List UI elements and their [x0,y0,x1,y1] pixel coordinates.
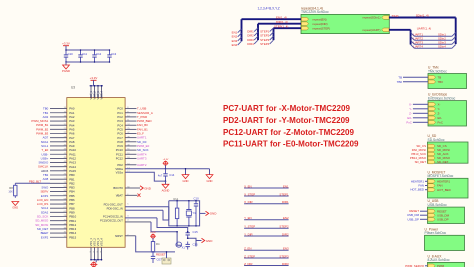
svg-text:C15: C15 [193,230,199,234]
ground [90,260,97,267]
svg-text:PC14/OSC32_IN: PC14/OSC32_IN [103,214,123,218]
bus entry STEP2 [270,32,274,36]
svg-text:HOT_BED: HOT_BED [437,188,451,192]
svg-text:UART4: UART4 [414,45,424,49]
net label EN2 [283,216,289,220]
note channel map [258,6,280,10]
pin PC9 [117,144,149,148]
resistor R4 [151,242,160,253]
pin PA1 [43,111,75,115]
pin PA6 [36,132,75,136]
net label STEP1 [279,192,289,196]
net label DIR(1..4) [276,20,288,24]
net label DIR1 [282,200,289,204]
svg-text:+3.3V: +3.3V [150,232,156,234]
svg-text:+3.3V: +3.3V [163,159,169,161]
wire [244,203,289,205]
net label PA6_MOSI [412,148,426,152]
pin VDD2 [93,85,97,100]
net label DIR3 [247,38,254,42]
bus wire UART [389,30,411,45]
svg-text:PC12-UART for -Z-Motor-TMC2209: PC12-UART for -Z-Motor-TMC2209 [223,128,355,137]
wire [414,43,452,45]
net label DIR4 [247,42,254,46]
bus entry EN1 [238,29,242,33]
pin PB13 [37,227,77,231]
net label DIR1 [247,30,254,34]
svg-text:AD8: AD8 [43,177,49,181]
switch S1 [162,251,171,264]
pin VDD3 [96,85,100,100]
svg-text:TB0: TB0 [438,80,444,84]
pin VBAT [116,193,138,197]
sheet entry RESET [428,209,447,213]
net label EN(1..4) [276,15,287,19]
svg-text:STEP(1..4): STEP(1..4) [274,24,288,28]
sheet symbol U_8-AUX [428,254,465,267]
svg-text:repeat(EN): repeat(EN) [313,17,327,21]
net label STEP3 [260,38,270,42]
sheet entry SD_CS [428,144,447,148]
svg-text:EXP2: EXP2 [41,235,49,239]
svg-text:Z_STEP: Z_STEP [244,254,255,258]
svg-text:C13: C13 [111,52,117,56]
pin PA13 [39,161,77,165]
pin PC4 [117,123,148,127]
svg-text:PD2-UART for -Y-Motor-TMC2209: PD2-UART for -Y-Motor-TMC2209 [223,116,350,125]
pin VDDA [115,167,165,171]
net label X- [409,102,428,106]
ground [206,169,213,183]
svg-text:GND: GND [183,179,189,183]
sheet entry SD_ACK [428,152,449,156]
svg-text:VSS_4: VSS_4 [100,238,104,247]
net label EN2 [232,35,238,39]
svg-text:C10: C10 [68,52,74,56]
power +3.3V [163,159,169,169]
net label SDin3 [438,41,446,45]
capacitor C11 [78,49,87,63]
pin PC15-OSC32_OUT [100,219,151,223]
net label UART1 [414,33,424,37]
pin VSS3 [96,238,100,261]
svg-text:PC7-UART for -X-Motor-TMC2209: PC7-UART for -X-Motor-TMC2209 [223,104,350,113]
wire [66,50,111,62]
svg-text:Y_EN: Y_EN [244,216,252,220]
wire [187,237,196,246]
svg-text:UART2: UART2 [137,163,147,167]
wire [176,231,181,245]
net label EN3 [283,247,289,251]
pin PB5 [41,194,75,198]
net label UART2 [414,37,424,41]
net label TB [398,75,428,79]
bus wire SDin [389,18,456,45]
svg-text:E0-: E0- [407,116,412,120]
pin PC12 [116,156,147,160]
pin PB12 [35,223,76,227]
svg-text:TMC2209.SchDoc: TMC2209.SchDoc [301,10,329,14]
svg-text:SD.SchDoc: SD.SchDoc [428,138,445,142]
pin PC2 [117,115,147,119]
bus entry [452,41,456,45]
pin PB15 [41,235,77,239]
net label DIR2 [247,34,254,38]
resistor R5 [174,197,179,226]
pin PA3 [31,119,74,123]
sheet entry Z- [428,111,440,115]
note UART assignments [223,104,359,149]
bus entry DIR4 [254,40,258,44]
wire [244,219,289,221]
sheet symbol U_Power [425,227,465,250]
pin PC1 [117,111,152,115]
wire [244,249,289,251]
svg-text:TB: TB [398,75,402,79]
svg-text:C11: C11 [82,52,87,56]
svg-text:C16: C16 [193,243,199,247]
pin PA4 [36,123,75,127]
bus entry [411,37,415,41]
sheet entry USB_DM [428,213,450,217]
wire [244,265,289,267]
svg-text:GND: GND [210,212,218,216]
svg-text:DIR2: DIR2 [282,232,289,236]
svg-text:Rx1: Rx1 [174,197,179,201]
pin PB7 [37,202,75,206]
net label Y_DIR [244,232,253,236]
svg-text:PC15/OSC32_OUT: PC15/OSC32_OUT [100,219,123,223]
svg-text:repeat(STEP): repeat(STEP) [313,26,331,30]
net label USB_DM [407,213,428,217]
sheet entry repeat(UART) [363,28,389,32]
pin PD2 [117,163,146,167]
svg-text:+3.3V: +3.3V [62,42,70,46]
bus entry DIR3 [254,36,258,40]
svg-text:Z-: Z- [438,111,441,115]
svg-text:EN3: EN3 [283,247,289,251]
pin NRST [115,234,136,238]
capacitor C07 [151,252,162,263]
power +3.3V [62,42,70,46]
net label Z_EN [244,247,251,251]
pin PA12 [41,156,77,160]
svg-text:RESET: RESET [156,252,166,256]
pin PD0-OSC_IN [107,206,163,210]
svg-text:10K: 10K [8,190,13,193]
svg-text:PxC: PxC [438,120,443,124]
svg-text:PGND: PGND [62,69,70,73]
net label Y_STEP [244,225,255,229]
net label RESET [156,252,166,256]
pin PC8 [117,140,146,144]
capacitor C16 [186,242,199,250]
wire [414,47,452,49]
svg-text:EnDStops.SchDoc: EnDStops.SchDoc [428,96,456,100]
svg-text:DIR1: DIR1 [282,200,289,204]
sheet entry USB_DP [428,217,449,221]
svg-text:PC12: PC12 [116,157,123,161]
sheet entry repeat(EN) [301,17,326,21]
bus entry [411,41,415,45]
svg-text:U3: U3 [71,85,75,89]
pin PC3 [117,119,151,123]
pin PB8 [41,206,75,210]
svg-text:DIR(1..4): DIR(1..4) [276,20,288,24]
net label STEP3 [279,254,289,258]
svg-text:SDin4: SDin4 [438,45,446,49]
bus entry STEP1 [270,28,274,32]
power +3.3V [90,76,98,86]
net label PWM_SERVO [405,264,427,267]
svg-text:C14: C14 [169,173,175,177]
wire [244,235,289,237]
svg-text:8-AUX.SchDoc: 8-AUX.SchDoc [428,258,451,262]
bus wire [273,28,275,40]
net label X_STEP [244,192,255,196]
wire [166,168,210,170]
pin PA9 [41,144,75,148]
svg-text:R4: R4 [156,242,160,246]
svg-text:1,2,3,4=B,X,Y,Z: 1,2,3,4=B,X,Y,Z [258,6,280,10]
svg-text:TMx.SchDoc: TMx.SchDoc [428,69,447,73]
wire [90,85,104,87]
svg-text:USB_DP: USB_DP [437,217,449,221]
net label Z_STEP [244,254,255,258]
pin PD1-OSC_OUT [104,203,169,207]
net label STEP2 [279,225,289,229]
net label X_DIR [244,200,253,204]
bus wire [257,24,259,40]
pin VDD4 [100,85,104,100]
pin PB11 [35,219,76,223]
wire [163,210,169,220]
capacitor C10 [64,49,73,63]
svg-text:USB.SchDoc: USB.SchDoc [428,203,448,207]
pin PC11 [116,152,147,156]
net label UART4 [414,45,424,49]
svg-text:VSSa: VSSa [116,170,124,174]
capacitor C13 [107,49,116,63]
pin BOOT0 [113,186,140,190]
sheet symbol U4 TMC2209 [301,6,389,33]
power +3.3V [150,232,156,242]
svg-text:GND: GND [12,206,18,210]
sheet entry Y- [428,107,440,111]
svg-text:TB: TB [438,75,442,79]
svg-text:VSS_2: VSS_2 [93,238,97,247]
svg-text:Y_STEP: Y_STEP [244,225,255,229]
svg-text:X_EN: X_EN [244,184,252,188]
bus entry DIR1 [254,28,258,32]
pin PA11 [41,152,76,156]
wire [65,46,67,50]
svg-text:repeat(DIR): repeat(DIR) [313,22,328,26]
bus entry [452,45,456,49]
svg-text:Z_DIR: Z_DIR [244,262,252,266]
pin PC14-OSC32_IN [103,214,157,218]
pin PC10 [116,148,149,152]
bus entry EN3 [238,37,242,41]
svg-text:BOOT0: BOOT0 [113,186,123,190]
sheet entry PWM [428,264,445,267]
wire [91,259,102,261]
svg-text:PD0-OSC_IN: PD0-OSC_IN [107,206,123,210]
pin PB0 [43,173,75,177]
pin PA7 [43,136,75,140]
wire [157,218,188,230]
svg-text:STEP4: STEP4 [260,42,270,46]
svg-text:UART(1..4): UART(1..4) [417,26,432,30]
sheet entry E0- [428,116,442,120]
wire [244,257,289,259]
net label SDin2 [438,37,446,41]
svg-text:SD_DET: SD_DET [437,160,449,164]
net label DIR3 [282,262,289,266]
net label Y- [409,107,428,111]
net label UART(1..4) [417,26,432,30]
net label PxC [406,120,428,124]
svg-text:GND: GND [144,186,152,190]
wire [151,222,177,232]
svg-text:GND: GND [206,239,214,243]
svg-text:C10: C10 [194,197,200,201]
svg-text:EN(1..4): EN(1..4) [276,15,287,19]
svg-text:C07: C07 [157,258,163,262]
pin PC6 [117,132,144,136]
net label Y_EN [244,216,252,220]
sheet entry repeat(SDin1) [363,16,390,20]
svg-text:repeat(SDin1): repeat(SDin1) [363,16,381,20]
net label EN1 [283,184,289,188]
net label E0- [407,116,428,120]
svg-text:STEP3: STEP3 [279,254,289,258]
svg-text:PxC: PxC [406,120,411,124]
pin VDD1 [89,85,93,100]
pin PA0 [43,107,75,111]
pin PC7 [117,136,146,140]
svg-text:NRST: NRST [115,234,123,238]
svg-text:STEP2: STEP2 [279,225,289,229]
bus entry DIR2 [254,32,258,36]
net label EN4 [232,43,238,47]
ground [140,186,152,191]
sheet entry SD_MISO [428,156,451,160]
sheet symbol U_EnDStops [428,93,467,126]
net label USB_DP [407,217,427,221]
pin PB2 [50,181,75,185]
svg-text:USB_DP: USB_DP [407,217,419,221]
pin PB1 [43,177,75,181]
net label EN1 [232,31,238,35]
wire [244,195,289,197]
svg-text:DIR4: DIR4 [247,42,254,46]
net label STEP4 [260,42,270,46]
svg-text:STEP1: STEP1 [279,192,289,196]
net label TXs0 [392,14,399,18]
net label SDin1 [438,33,446,37]
net label HOT_BED [410,188,427,192]
pin PC0 [117,107,146,111]
crystal Y1 [186,200,196,227]
svg-text:C12: C12 [96,52,102,56]
net label STEP2 [260,34,270,38]
net label PB13_SCK [411,152,426,156]
net label TB0 [397,80,428,84]
net label DIR2 [282,232,289,236]
svg-text:PC11-UART for -E0-Motor-TMC220: PC11-UART for -E0-Motor-TMC2209 [223,140,359,149]
svg-text:DIR3: DIR3 [282,262,289,266]
bus entry STEP3 [270,36,274,40]
ground [182,168,189,183]
pin PC5 [117,127,148,131]
sheet entry TB [428,75,441,79]
pin VSSA [116,170,166,181]
pin PA8 [41,140,75,144]
resistor R8 [8,183,17,198]
capacitor C12 [92,49,101,63]
svg-text:X_STEP: X_STEP [244,192,255,196]
wire [195,209,197,227]
svg-text:X-: X- [438,102,441,106]
net label Z- [409,111,428,115]
pin PB10 [37,215,77,219]
net label Z_DIR [244,262,252,266]
svg-text:X-: X- [409,102,412,106]
sheet symbol U_MOSFET [428,170,469,198]
capacitor C15 [186,230,199,239]
sheet entry SD_MOSI [428,148,450,152]
svg-text:VSS_1: VSS_1 [89,238,93,247]
sheet entry SD_DET [428,160,449,164]
sheet entry FAN [428,184,443,188]
ground AGND [162,181,170,192]
svg-text:SDin(1..4): SDin(1..4) [416,14,429,18]
sheet symbol U_USB [428,199,465,223]
svg-text:Power.SchDoc: Power.SchDoc [425,231,447,235]
bus entry [452,37,456,41]
svg-text:+3.3V: +3.3V [90,76,98,80]
svg-text:EN4: EN4 [232,43,238,47]
bus wire [258,23,301,25]
svg-text:PD1-OSC_OUT: PD1-OSC_OUT [104,203,123,207]
wire [414,39,452,41]
pin PB14 [41,231,77,235]
svg-text:HOT_BED: HOT_BED [410,188,424,192]
sheet entry PxC [428,120,443,124]
pin PB9 [41,210,75,214]
svg-text:Z_EN: Z_EN [244,247,251,251]
bus wire [242,18,302,20]
net label STEP(1..4) [274,24,288,28]
pin VSS4 [100,238,104,261]
svg-text:4u7: 4u7 [158,173,163,177]
pin PA5 [36,127,75,131]
ground [196,238,213,243]
wire [244,227,289,229]
sheet symbol U_TMx [428,66,467,89]
svg-text:Y-: Y- [409,107,412,111]
svg-text:TXd0: TXd0 [392,14,399,18]
net label SDin(1..4) [416,14,429,18]
svg-text:repeat(UART): repeat(UART) [363,28,381,32]
pin PB4 [40,190,75,194]
svg-text:PB15: PB15 [69,235,76,239]
net label X_EN [244,184,252,188]
svg-text:Y_DIR: Y_DIR [244,232,253,236]
wire [414,35,452,37]
net label RESET [409,209,427,213]
